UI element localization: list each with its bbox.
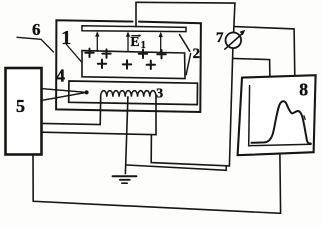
svg-text:5: 5: [16, 96, 25, 116]
svg-text:2: 2: [192, 46, 200, 62]
svg-text:6: 6: [32, 20, 41, 39]
svg-text:E: E: [130, 34, 139, 49]
svg-text:7: 7: [216, 30, 224, 46]
svg-text:4: 4: [56, 66, 65, 86]
svg-text:8: 8: [299, 80, 308, 100]
svg-text:3: 3: [156, 86, 163, 101]
svg-text:1: 1: [61, 27, 71, 49]
svg-text:1: 1: [141, 40, 146, 51]
